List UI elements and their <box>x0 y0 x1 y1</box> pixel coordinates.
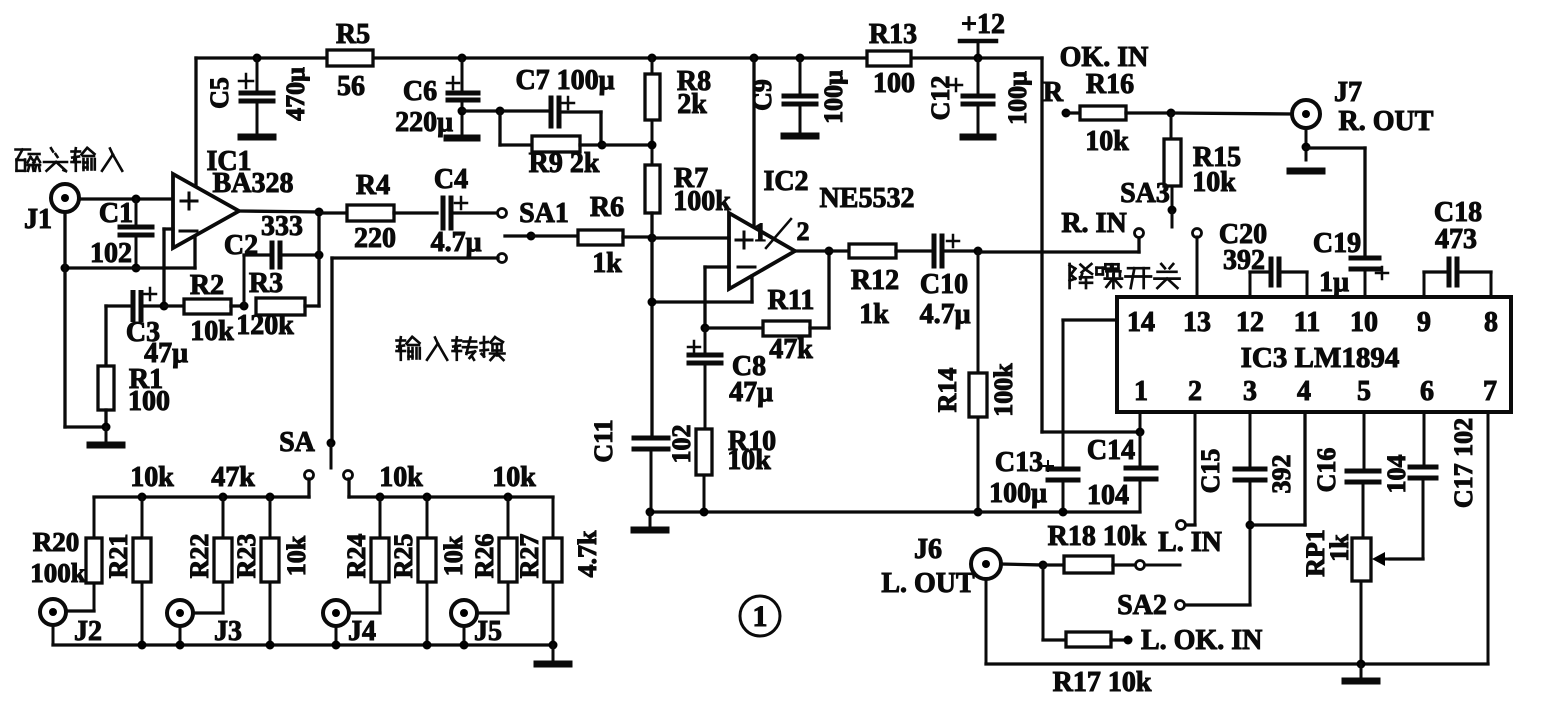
resistor R26 <box>470 497 517 613</box>
wire J4 down <box>335 626 338 645</box>
svg-text:392: 392 <box>1267 455 1296 494</box>
svg-text:C1: C1 <box>99 198 133 229</box>
resistor R18 <box>1043 521 1147 573</box>
wire J6 shield run <box>986 579 1488 664</box>
svg-text:NE5532: NE5532 <box>820 183 915 214</box>
resistor R15 <box>1164 113 1241 210</box>
svg-text:470μ: 470μ <box>281 67 310 121</box>
node rail-IC2 V+ <box>750 54 759 63</box>
wire J7 down <box>1305 128 1308 160</box>
wire pin2 lead <box>1186 412 1195 525</box>
svg-text:R. OUT: R. OUT <box>1339 106 1434 137</box>
svg-text:3: 3 <box>1243 376 1257 407</box>
pin 9 <box>1417 307 1431 338</box>
resistor R3 <box>236 268 319 341</box>
wire IC2 - input step <box>705 267 729 328</box>
resistor R21 <box>104 497 151 645</box>
capacitor C7 <box>500 65 615 126</box>
node R26 top <box>504 493 513 502</box>
node R2-R3 <box>240 302 249 311</box>
capacitor C12 <box>926 58 1032 134</box>
capacitor C9 <box>748 58 848 133</box>
node pin3-pin4 tie <box>1246 521 1255 530</box>
svg-text:BA328: BA328 <box>213 168 294 199</box>
pin 8 <box>1484 307 1498 338</box>
label R. IN <box>1061 208 1126 239</box>
svg-text:1: 1 <box>1134 376 1148 407</box>
svg-text:473: 473 <box>1435 224 1477 255</box>
resistor R20 <box>30 497 102 611</box>
capacitor C4 <box>431 164 496 258</box>
label 47k bus2 <box>211 462 255 493</box>
svg-text:J7: J7 <box>1334 77 1362 108</box>
label 10k R23 <box>282 535 311 576</box>
node R8-R7 junction <box>648 141 657 150</box>
node rail +12/C12 <box>974 54 983 63</box>
svg-text:220μ: 220μ <box>395 107 453 138</box>
svg-text:10k: 10k <box>439 535 468 576</box>
node R1 bottom <box>102 423 111 432</box>
svg-text:C5: C5 <box>205 77 234 109</box>
svg-text:C17 102: C17 102 <box>1449 418 1478 508</box>
wire J2 down <box>52 625 55 645</box>
svg-text:L. OUT: L. OUT <box>881 568 975 599</box>
node R21 bottom <box>138 641 147 650</box>
op-amp IC2 <box>729 166 914 289</box>
resistor R9 <box>500 111 602 179</box>
svg-text:100k: 100k <box>673 186 731 217</box>
wire IC2 hypotenuse stub <box>750 276 753 302</box>
svg-text:10k: 10k <box>282 535 311 576</box>
switch SA left contact <box>305 471 314 480</box>
wire J6 to node <box>1001 564 1043 565</box>
capacitor C13 <box>989 320 1078 512</box>
wire J7 to C19 <box>1306 148 1365 256</box>
node IC2 out <box>825 247 834 256</box>
wire mid ground rail <box>650 510 1140 513</box>
svg-text:100μ: 100μ <box>819 70 848 124</box>
wire IC2 V+ drop <box>752 58 755 227</box>
svg-text:102: 102 <box>667 425 696 464</box>
svg-text:1k: 1k <box>1325 534 1354 562</box>
node RP1 ground <box>1357 660 1366 669</box>
svg-text:R26: R26 <box>470 534 499 579</box>
wire C10 to R.IN <box>978 237 1139 252</box>
svg-text:4.7k: 4.7k <box>573 530 602 578</box>
svg-text:C10: C10 <box>920 269 968 300</box>
svg-text:333: 333 <box>261 211 303 242</box>
capacitor C11 <box>589 419 696 512</box>
svg-text:10k: 10k <box>190 316 234 347</box>
node R14 bottom <box>974 508 983 517</box>
node R23 bottom <box>266 641 275 650</box>
wire IC2 + input <box>652 236 729 239</box>
wire IC1 V+ drop from rail <box>194 58 197 187</box>
svg-text:100μ: 100μ <box>1003 71 1032 125</box>
label OK. IN <box>1060 42 1149 73</box>
svg-text:6: 6 <box>1420 376 1434 407</box>
svg-text:R25: R25 <box>389 534 418 579</box>
label L. OK. IN <box>1141 625 1262 656</box>
capacitor C17 on pin6 <box>1390 412 1478 559</box>
svg-text:8: 8 <box>1484 307 1498 338</box>
node R10 bottom <box>700 508 709 517</box>
switch SA3 pole <box>1120 178 1176 227</box>
pin 7 <box>1483 376 1497 407</box>
label 降噪开关 <box>1070 264 1180 288</box>
svg-text:J3: J3 <box>214 616 242 647</box>
node R16-R15 <box>1167 109 1176 118</box>
op-amp IC1 <box>173 146 293 248</box>
svg-text:J1: J1 <box>24 204 52 235</box>
wire J5 to R26 <box>477 611 508 614</box>
capacitor C2 <box>224 211 319 306</box>
svg-text:L. OK. IN: L. OK. IN <box>1141 625 1262 656</box>
resistor R14 <box>933 251 1018 512</box>
svg-text:R9 2k: R9 2k <box>529 148 600 179</box>
svg-text:10k: 10k <box>379 462 423 493</box>
svg-text:R17 10k: R17 10k <box>1053 667 1152 698</box>
svg-text:100: 100 <box>128 386 170 417</box>
svg-text:R24: R24 <box>342 534 371 579</box>
node R21 top <box>138 493 147 502</box>
resistor R2 <box>164 270 244 347</box>
svg-text:102: 102 <box>90 238 132 269</box>
svg-text:+12: +12 <box>961 9 1005 40</box>
svg-text:9: 9 <box>1417 307 1431 338</box>
capacitor C19 <box>1313 228 1388 298</box>
svg-text:4.7μ: 4.7μ <box>920 299 971 330</box>
svg-text:C11: C11 <box>589 419 618 462</box>
jack J7 <box>1292 77 1434 137</box>
svg-text:C16: C16 <box>1312 448 1341 493</box>
wire R7 junction down <box>650 213 653 436</box>
switch SA1 pole <box>505 198 569 241</box>
svg-text:R11: R11 <box>768 285 815 316</box>
wire SA2 branch <box>1184 603 1250 606</box>
capacitor C18 <box>1424 197 1491 297</box>
pin 1 <box>1134 376 1148 407</box>
pin 4 <box>1297 376 1311 407</box>
resistor R5 <box>327 19 373 102</box>
ground below C9 <box>784 133 816 140</box>
label R17 10k <box>1053 667 1152 698</box>
switch contact SA2 <box>1117 590 1184 621</box>
svg-text:12: 12 <box>1236 307 1264 338</box>
svg-text:C6: C6 <box>403 76 437 107</box>
node R25 top <box>423 493 432 502</box>
wire left bus <box>94 479 309 497</box>
IC U3 LM1894 body <box>1117 297 1511 412</box>
resistor R22 <box>185 497 232 613</box>
svg-text:R18 10k: R18 10k <box>1048 521 1147 552</box>
wire J1 down <box>65 212 106 427</box>
switch SA <box>279 427 335 468</box>
svg-text:R4: R4 <box>356 170 390 201</box>
pin 12 <box>1236 307 1264 338</box>
jack J2 <box>40 599 102 647</box>
svg-text:R27: R27 <box>515 534 544 579</box>
figure number 1 <box>740 596 780 636</box>
svg-text:R5: R5 <box>336 19 370 50</box>
svg-text:C15: C15 <box>1196 449 1225 494</box>
svg-text:R20: R20 <box>33 527 80 557</box>
svg-text:2k: 2k <box>677 89 707 120</box>
capacitor C20 <box>1219 219 1307 297</box>
wire top supply rail <box>196 56 1042 59</box>
wire rail corner down to pin1 feed <box>1042 58 1140 432</box>
svg-text:C12: C12 <box>926 76 955 121</box>
node R25 bottom <box>423 641 432 650</box>
label L. IN <box>1158 527 1222 558</box>
svg-text:1k: 1k <box>859 299 889 330</box>
svg-text:5: 5 <box>1357 376 1371 407</box>
wire IC2 apex out <box>795 249 849 252</box>
svg-text:104: 104 <box>1382 455 1411 494</box>
node rail-C6 <box>458 54 467 63</box>
label 4.7k R27 <box>573 530 602 578</box>
svg-text:R3: R3 <box>249 268 283 299</box>
svg-text:C14: C14 <box>1087 435 1135 466</box>
svg-text:220: 220 <box>354 223 396 254</box>
svg-text:100k: 100k <box>30 558 86 588</box>
svg-text:R16: R16 <box>1086 69 1134 100</box>
wire C7 right down <box>599 112 602 145</box>
label 磁头输入 <box>16 148 123 171</box>
resistor R12 <box>849 244 930 330</box>
ground below mid rail <box>634 512 666 530</box>
node IC1 out <box>315 208 324 217</box>
wire C1 bottom run <box>65 266 195 269</box>
node R24 top <box>376 493 385 502</box>
svg-text:C2: C2 <box>224 230 258 261</box>
svg-text:14: 14 <box>1127 307 1155 338</box>
svg-text:R13: R13 <box>869 19 917 50</box>
wire J3 to R22 <box>193 611 223 614</box>
node J1 shield <box>61 264 70 273</box>
capacitor C5 <box>205 58 310 134</box>
jack J6 <box>881 534 1001 599</box>
wire R16 to J7 <box>1171 113 1292 114</box>
svg-text:R: R <box>1043 77 1064 108</box>
power +12 <box>960 9 1005 58</box>
svg-text:56: 56 <box>337 71 365 102</box>
svg-text:IC3 LM1894: IC3 LM1894 <box>1241 342 1400 374</box>
switch contact R18 out <box>1136 561 1145 570</box>
svg-text:J4: J4 <box>348 616 376 647</box>
svg-text:2: 2 <box>1188 376 1202 407</box>
node R27 bottom <box>549 641 558 650</box>
capacitor C14 <box>1087 432 1156 512</box>
svg-text:SA3: SA3 <box>1120 178 1170 209</box>
node C1 bottom <box>132 264 141 273</box>
capacitor C16 on pin5 <box>1312 412 1411 538</box>
ground below R1 <box>90 427 122 445</box>
capacitor C15 on pin3 <box>1196 412 1296 605</box>
jack J5 <box>451 600 502 647</box>
pin 3 <box>1243 376 1257 407</box>
resistor R13 <box>867 19 917 99</box>
wire J5 down <box>463 626 466 645</box>
svg-text:R2: R2 <box>190 270 224 301</box>
pin 11 <box>1294 307 1320 338</box>
svg-text:R14: R14 <box>933 368 962 413</box>
node R11/C8 <box>701 324 710 333</box>
resistor R27 <box>515 497 562 645</box>
node pin1 feed <box>1136 428 1145 437</box>
node rail-C9 <box>796 54 805 63</box>
svg-text:47k: 47k <box>211 462 255 493</box>
svg-text:392: 392 <box>1223 245 1265 276</box>
node R23 top <box>266 493 275 502</box>
node R2 left <box>160 302 169 311</box>
svg-text:1μ: 1μ <box>1319 267 1349 298</box>
jack J4 <box>323 600 376 647</box>
svg-text:R23: R23 <box>232 534 261 579</box>
node C2 right <box>315 251 324 260</box>
svg-text:J6: J6 <box>914 534 942 565</box>
svg-text:J5: J5 <box>474 616 502 647</box>
svg-text:4.7μ: 4.7μ <box>431 227 482 258</box>
resistor R11 <box>705 285 829 365</box>
svg-text:L. IN: L. IN <box>1158 527 1222 558</box>
wire IC1 apex to node <box>239 211 319 212</box>
svg-text:100μ: 100μ <box>989 478 1047 509</box>
wire J3 down <box>179 626 182 645</box>
node rail-C5 <box>253 54 262 63</box>
ground below C5 <box>241 134 273 141</box>
node J5 bottom <box>460 641 469 650</box>
wire R9 to R8/R7 junction <box>602 143 652 146</box>
node J7 shield <box>1302 143 1311 152</box>
node C1 top <box>132 195 141 204</box>
wire pin1 lead <box>1139 412 1142 432</box>
svg-text:1k: 1k <box>592 248 622 279</box>
pin 10 <box>1350 307 1378 338</box>
wire bottom bus <box>53 643 553 646</box>
switch contact L.IN <box>1146 521 1186 566</box>
label 10k bus3 <box>379 462 423 493</box>
wire J2 to R20 <box>66 609 94 612</box>
svg-text:100: 100 <box>873 68 915 99</box>
svg-text:SA1: SA1 <box>519 198 569 229</box>
node C11 bottom <box>646 508 655 517</box>
wire pin3 to pin4 <box>1250 412 1305 525</box>
node rail-R8 <box>648 54 657 63</box>
node C7/R9 left <box>496 107 505 116</box>
jack J1 <box>24 184 79 235</box>
svg-text:C13: C13 <box>995 447 1043 478</box>
ground below C6 <box>447 135 477 142</box>
svg-text:1: 1 <box>754 218 767 247</box>
pin 14 <box>1127 307 1155 338</box>
pin 5 <box>1357 376 1371 407</box>
resistor R25 <box>389 497 436 645</box>
capacitor C3 <box>106 288 188 369</box>
svg-text:C7 100μ: C7 100μ <box>515 65 614 96</box>
svg-text:7: 7 <box>1483 376 1497 407</box>
resistor R17 <box>1043 565 1133 647</box>
resistor R23 <box>232 497 279 645</box>
svg-text:1: 1 <box>753 600 768 633</box>
label 输入转换 <box>397 337 505 360</box>
label 10k bus4 <box>492 462 536 493</box>
pin 13 <box>1183 307 1211 338</box>
svg-text:47k: 47k <box>769 334 813 365</box>
svg-text:4: 4 <box>1297 376 1311 407</box>
node J4 bottom <box>332 641 341 650</box>
svg-text:10k: 10k <box>492 462 536 493</box>
node J6-R18/R17 <box>1039 561 1048 570</box>
ground below R27 <box>537 645 569 664</box>
wire IC1 - input <box>164 229 173 306</box>
switch SA1 lower contact <box>498 254 507 263</box>
resistor R1 <box>98 306 170 427</box>
switch contact pin13 <box>1193 229 1202 298</box>
capacitor C8 <box>688 328 773 429</box>
wire J1 to IC1 + <box>79 197 173 200</box>
resistor R16 <box>1066 69 1171 157</box>
svg-text:13: 13 <box>1183 307 1211 338</box>
wire bias run y302 <box>652 300 752 303</box>
svg-text:10k: 10k <box>1192 167 1236 198</box>
ground RP1/pin7 <box>1345 664 1377 681</box>
wire C6 tap to C7/R9 <box>462 109 500 112</box>
resistor R6 <box>531 192 652 279</box>
node J3 bottom <box>176 641 185 650</box>
label 10k bus1 <box>130 462 174 493</box>
label R terminal <box>1043 77 1071 118</box>
wire R11 to output <box>827 251 830 328</box>
resistor R4 <box>319 170 437 254</box>
resistor R7 <box>645 163 731 217</box>
switch SA right contact <box>344 471 353 480</box>
node C6-tap <box>458 107 467 116</box>
pin 6 <box>1420 376 1434 407</box>
svg-text:R12: R12 <box>851 265 899 296</box>
node C13 bottom <box>1059 508 1068 517</box>
svg-text:10k: 10k <box>1085 126 1129 157</box>
resistor R24 <box>342 497 389 613</box>
wire IC1 hypotenuse stub <box>193 238 196 268</box>
svg-text:C19: C19 <box>1313 228 1361 259</box>
wire J4 to R24 <box>349 611 380 614</box>
capacitor C10 <box>920 235 978 330</box>
svg-text:120k: 120k <box>236 310 294 341</box>
svg-text:R22: R22 <box>185 534 214 579</box>
node R9-R8R7 <box>598 141 607 150</box>
label 10k R25 <box>439 535 468 576</box>
svg-text:10: 10 <box>1350 307 1378 338</box>
svg-text:IC2: IC2 <box>763 166 808 197</box>
capacitor C1 <box>90 198 152 269</box>
svg-text:J2: J2 <box>74 616 102 647</box>
svg-text:SA: SA <box>279 427 316 458</box>
svg-text:2: 2 <box>797 217 810 246</box>
node bias-vertical <box>648 298 657 307</box>
switch contact R.IN <box>1135 229 1144 238</box>
resistor R10 <box>696 426 776 512</box>
svg-text:10k: 10k <box>727 445 771 476</box>
svg-text:C4: C4 <box>434 164 468 195</box>
wire pin14 feed <box>1063 318 1117 321</box>
svg-text:100k: 100k <box>989 363 1018 417</box>
svg-text:104: 104 <box>1087 480 1129 511</box>
svg-text:47μ: 47μ <box>729 377 773 408</box>
node R6-IC2 + <box>648 234 657 243</box>
svg-text:R. IN: R. IN <box>1061 208 1126 239</box>
potentiometer RP1 <box>1301 529 1390 665</box>
